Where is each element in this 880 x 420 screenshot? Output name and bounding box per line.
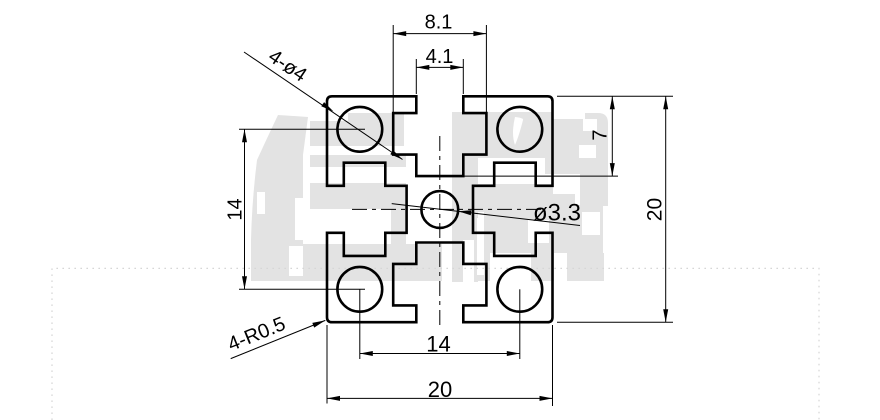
leader 4-ø4 (corner holes) xyxy=(244,45,403,159)
svg-text:8.1: 8.1 xyxy=(425,12,453,34)
dimension 14 (bottom, hole spacing) xyxy=(360,289,520,359)
corner hole top-right xyxy=(497,107,542,152)
watermark left character xyxy=(251,113,442,281)
leader 4-R0.5 (corner radius) xyxy=(225,313,325,359)
dimension 20 (right side height) xyxy=(557,96,673,322)
svg-text:20: 20 xyxy=(644,198,667,221)
svg-text:14: 14 xyxy=(426,332,450,357)
vertical centerline xyxy=(439,136,441,325)
svg-text:20: 20 xyxy=(428,377,452,402)
dimension 20 (bottom width) xyxy=(327,325,553,406)
center hole xyxy=(421,191,458,228)
corner hole top-left xyxy=(337,107,382,152)
corner hole bottom-left xyxy=(337,267,382,312)
watermark right character xyxy=(452,112,608,282)
dimension 7 (slot depth) xyxy=(464,96,673,176)
svg-text:ø3.3: ø3.3 xyxy=(533,200,581,227)
dimension 4.1 xyxy=(416,46,463,94)
aluminum profile outline xyxy=(327,96,553,322)
svg-text:14: 14 xyxy=(225,198,247,220)
svg-text:7: 7 xyxy=(590,129,612,140)
leader ø3.3 (center hole) xyxy=(392,200,581,227)
corner hole bottom-right xyxy=(497,267,542,312)
dotted page border xyxy=(52,268,819,420)
horizontal centerline xyxy=(352,208,543,210)
svg-text:4.1: 4.1 xyxy=(426,46,454,68)
dimension 14 (left, hole spacing) xyxy=(225,129,366,289)
dimension 8.1 xyxy=(393,12,486,113)
